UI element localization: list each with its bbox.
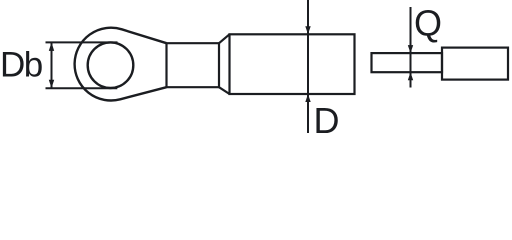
D dimension line bbox=[307, 0, 309, 133]
Db up arrowhead bbox=[49, 42, 54, 51]
Db bottom extension line bbox=[46, 87, 118, 89]
side view barrel rectangle bbox=[442, 48, 508, 80]
svg-text:Q: Q bbox=[414, 2, 442, 43]
neck left edge bbox=[165, 43, 167, 87]
Q bottom arrowhead (points up) bbox=[408, 72, 413, 80]
Db dimension line bbox=[51, 42, 53, 88]
ring hole circle Db bbox=[88, 42, 134, 88]
Q top arrowhead (points down) bbox=[408, 45, 413, 53]
barrel rectangle (main view) bbox=[230, 34, 355, 94]
Db top extension line bbox=[46, 41, 118, 43]
D top arrowhead (points down) bbox=[305, 26, 310, 34]
svg-text:Db: Db bbox=[0, 45, 42, 84]
D bottom arrowhead (points up) bbox=[305, 94, 310, 102]
Q dimension line bbox=[410, 7, 412, 88]
side view tongue rectangle bbox=[372, 53, 443, 72]
Db down arrowhead bbox=[49, 80, 54, 89]
flare to barrel bbox=[219, 34, 230, 94]
ring terminal outer outline (ring + tangent lines to neck) bbox=[75, 28, 167, 101]
svg-text:D: D bbox=[314, 100, 340, 141]
neck rectangle bbox=[167, 43, 220, 87]
